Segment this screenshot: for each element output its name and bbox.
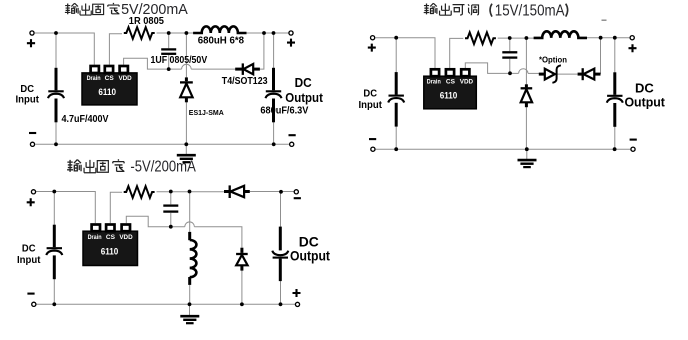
svg-text:DC: DC bbox=[299, 234, 319, 249]
svg-text:Output: Output bbox=[624, 95, 665, 110]
svg-text:4.7uF/400V: 4.7uF/400V bbox=[62, 114, 109, 125]
svg-text:Drain: Drain bbox=[88, 234, 102, 241]
svg-text:DC: DC bbox=[22, 244, 36, 255]
svg-text:VDD: VDD bbox=[118, 75, 131, 82]
svg-text:1UF 0805/50V: 1UF 0805/50V bbox=[151, 55, 208, 66]
svg-text:CS: CS bbox=[106, 234, 116, 241]
svg-text:Output: Output bbox=[285, 90, 323, 105]
svg-text:6110: 6110 bbox=[98, 87, 116, 97]
svg-text:Output: Output bbox=[290, 249, 330, 264]
svg-text:Input: Input bbox=[17, 255, 41, 266]
svg-text:5V/200mA: 5V/200mA bbox=[121, 1, 189, 18]
svg-text:-5V/200mA: -5V/200mA bbox=[130, 158, 196, 175]
svg-text:680uF/6.3V: 680uF/6.3V bbox=[260, 106, 308, 117]
svg-text:VDD: VDD bbox=[119, 234, 132, 241]
svg-text:*Option: *Option bbox=[539, 54, 567, 64]
svg-text:DC: DC bbox=[295, 75, 313, 90]
svg-text:680uH 6*8: 680uH 6*8 bbox=[198, 36, 245, 47]
svg-text:VDD: VDD bbox=[460, 78, 473, 85]
svg-text:Input: Input bbox=[359, 100, 383, 111]
svg-text:CS: CS bbox=[105, 75, 115, 82]
svg-text:Input: Input bbox=[16, 94, 40, 105]
svg-text:DC: DC bbox=[363, 89, 377, 100]
svg-text:CS: CS bbox=[446, 78, 456, 85]
svg-text:6110: 6110 bbox=[440, 91, 458, 101]
svg-text:ES1J-SMA: ES1J-SMA bbox=[189, 110, 224, 117]
svg-text:15V/150mA: 15V/150mA bbox=[495, 3, 565, 20]
svg-text:T4/SOT123: T4/SOT123 bbox=[222, 76, 268, 87]
svg-text:6110: 6110 bbox=[101, 247, 119, 257]
svg-text:Drain: Drain bbox=[427, 78, 441, 85]
svg-text:DC: DC bbox=[635, 81, 654, 96]
svg-text:Drain: Drain bbox=[87, 75, 101, 82]
